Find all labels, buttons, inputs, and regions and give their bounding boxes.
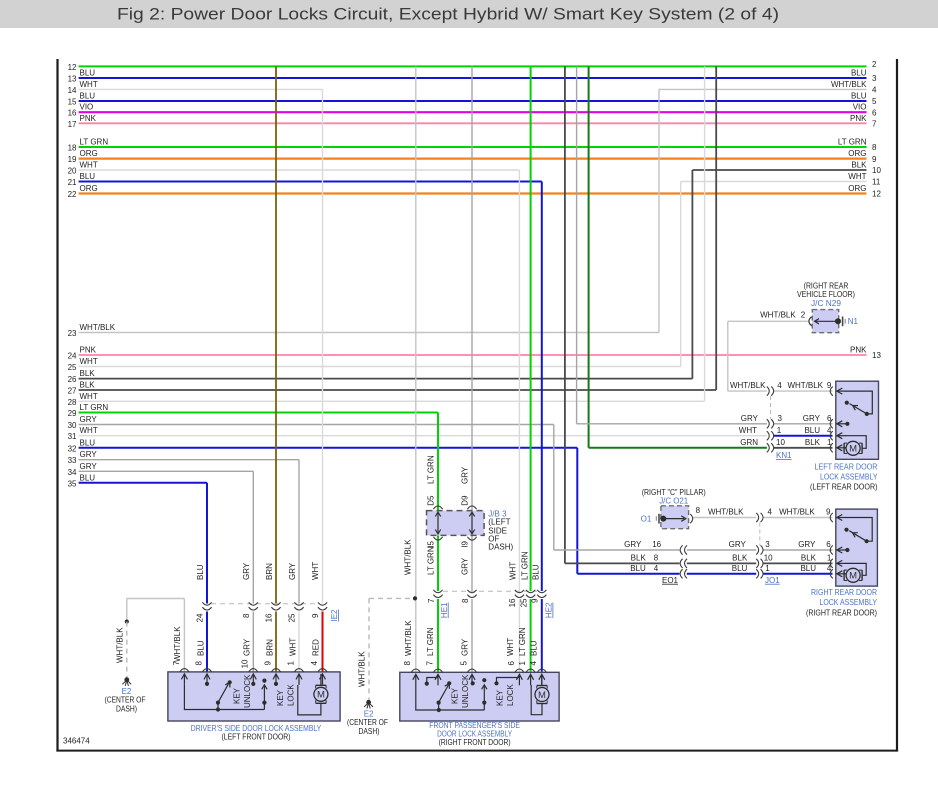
passenger pin arc x=541.8 <box>537 669 546 672</box>
right rear switch blade <box>849 531 866 542</box>
connector dashed link <box>770 396 772 419</box>
wire WHT/BLK E2 drop solid <box>126 599 128 622</box>
svg-text:LOCK: LOCK <box>506 684 515 706</box>
svg-text:18: 18 <box>68 144 77 153</box>
wire BLU 4 row <box>577 573 679 575</box>
passenger pin arrow x=541.8 <box>541 675 543 685</box>
svg-text:WHT/BLK: WHT/BLK <box>115 627 124 663</box>
svg-text:5: 5 <box>872 97 877 106</box>
driver pin arc x=184.4 <box>180 669 189 672</box>
driver ground bus from pin 7 <box>184 685 264 710</box>
wire WHT vertical from row 20 to passenger connector 16 <box>518 170 520 591</box>
wire WHT/BLK from J/C N29 horizontal <box>728 320 808 322</box>
svg-text:WHT: WHT <box>508 562 517 580</box>
svg-text:26: 26 <box>68 375 77 384</box>
wire GRY vertical from row 30 to right rear GRY 16 row <box>553 425 555 551</box>
J/C O21 exit arc <box>690 514 693 523</box>
svg-text:E2: E2 <box>364 709 374 718</box>
passenger connector break x=472 <box>467 590 476 593</box>
wire GRY 3 row to connector <box>577 423 767 425</box>
svg-text:WHT/BLK: WHT/BLK <box>404 620 413 656</box>
wire BLU 4 segment <box>763 573 832 575</box>
svg-text:11: 11 <box>872 178 881 187</box>
left rear door pin 1 arrow <box>838 447 846 449</box>
passenger motor wire to pin 4 <box>541 674 543 685</box>
svg-text:WHT/BLK: WHT/BLK <box>403 539 412 575</box>
wire GRY 6 segment <box>763 549 832 551</box>
svg-text:WHT/BLK: WHT/BLK <box>173 626 182 662</box>
svg-text:BLU: BLU <box>529 640 538 656</box>
wire WHT/BLK E2 branch horizontal <box>127 598 185 600</box>
svg-text:BLU: BLU <box>732 564 748 573</box>
connector arcs <box>767 419 769 428</box>
svg-text:(LEFT FRONT DOOR): (LEFT FRONT DOOR) <box>222 733 291 742</box>
driver pin arrow x=253.3 <box>252 675 254 685</box>
svg-text:28: 28 <box>68 398 77 407</box>
svg-text:9: 9 <box>263 660 272 665</box>
passenger pin arrow x=519.4 <box>518 675 520 685</box>
svg-text:LT GRN: LT GRN <box>426 546 435 575</box>
svg-text:BLU: BLU <box>80 438 96 447</box>
svg-text:10: 10 <box>872 166 881 175</box>
wire row 25 WHT <box>79 366 681 368</box>
svg-text:GRN: GRN <box>740 438 758 447</box>
junction connector J/C N29 box <box>812 310 838 333</box>
svg-text:JO1: JO1 <box>765 576 780 585</box>
driver pin arrow x=299 <box>298 675 300 685</box>
svg-text:ORG: ORG <box>80 184 98 193</box>
svg-text:23: 23 <box>68 329 77 338</box>
svg-text:RIGHT REAR DOOR: RIGHT REAR DOOR <box>811 588 877 597</box>
svg-text:HE2: HE2 <box>545 602 554 618</box>
svg-text:346474: 346474 <box>63 737 90 746</box>
wire WHT/BLK vertical from junction dot down to passenger box <box>415 598 417 671</box>
svg-text:WHT: WHT <box>80 80 98 89</box>
svg-text:LEFT REAR DOOR: LEFT REAR DOOR <box>815 462 878 471</box>
svg-text:30: 30 <box>68 421 77 430</box>
wire WHT/BLK E2 drop dashed <box>126 622 128 678</box>
passenger connector break x=438 <box>433 590 442 593</box>
svg-text:LT GRN: LT GRN <box>521 551 530 580</box>
svg-text:KN1: KN1 <box>776 451 792 460</box>
wire BRN vertical below connector <box>275 612 277 672</box>
svg-text:VEHICLE FLOOR): VEHICLE FLOOR) <box>797 290 855 299</box>
svg-text:GRY: GRY <box>803 414 821 423</box>
svg-text:LT GRN: LT GRN <box>80 403 109 412</box>
svg-text:WHT/BLK: WHT/BLK <box>708 508 744 517</box>
driver key unlock pivot <box>217 703 219 710</box>
wire row 30 GRY <box>79 424 554 426</box>
wire WHT/BLK E2 drop dashed <box>368 598 370 700</box>
wire LT GRN vertical J/B 3 to connector 7 <box>437 535 439 591</box>
svg-text:(CENTER OF: (CENTER OF <box>105 696 146 705</box>
svg-text:31: 31 <box>68 432 77 441</box>
passenger motor M <box>537 685 547 687</box>
svg-text:1: 1 <box>518 660 527 665</box>
left rear door pin 4 arrow <box>838 435 846 437</box>
svg-text:EO1: EO1 <box>662 576 679 585</box>
left rear door pin 6 arc <box>830 419 833 428</box>
connector arcs right half <box>756 545 758 554</box>
svg-text:16: 16 <box>68 109 77 118</box>
J/C N29 exit bar <box>842 317 844 327</box>
svg-text:D9: D9 <box>461 495 470 506</box>
svg-text:24: 24 <box>196 613 205 622</box>
driver motor M <box>316 684 326 686</box>
J/B 3 internal arrow left <box>437 514 439 533</box>
svg-text:(CENTER OF: (CENTER OF <box>347 718 388 727</box>
wire row 26 BLK <box>79 378 693 380</box>
ground E2 (right) <box>366 700 371 705</box>
wire row 33 GRY <box>79 459 299 461</box>
wire row 31 WHT <box>79 435 767 437</box>
svg-text:5: 5 <box>459 660 468 665</box>
ground E2 (left) <box>124 677 129 682</box>
driver pin arc x=322.5 <box>318 669 327 672</box>
svg-text:GRY: GRY <box>624 540 642 549</box>
svg-text:GRY: GRY <box>461 466 470 484</box>
driver key unlock blade <box>218 684 229 703</box>
svg-text:BLU: BLU <box>804 426 820 435</box>
svg-text:14: 14 <box>68 86 77 95</box>
component driver's side door lock assembly box <box>168 672 340 721</box>
driver pin arrow x=276 <box>275 675 277 685</box>
wire GRY 3 segment <box>687 549 756 551</box>
svg-text:PNK: PNK <box>80 346 97 355</box>
svg-text:WHT: WHT <box>80 161 98 170</box>
svg-text:1: 1 <box>286 660 295 665</box>
svg-text:BLU: BLU <box>197 640 206 656</box>
passenger key unlock top contact dot <box>447 681 451 685</box>
driver connector break x=299 <box>294 602 303 605</box>
svg-text:GRY: GRY <box>80 450 98 459</box>
connector arcs <box>767 387 769 396</box>
connector arcs left half <box>680 569 682 578</box>
svg-text:BLK: BLK <box>732 553 748 562</box>
wire BLU 1 segment <box>687 573 756 575</box>
svg-text:8: 8 <box>872 143 877 152</box>
wire LT GRN vertical below connector 7 to passenger pin 7 <box>437 599 439 672</box>
wire BLU vertical below connector 24 to driver pin 8 <box>206 612 208 672</box>
junction dot passenger pin 8 wire <box>413 596 417 600</box>
svg-text:LT GRN: LT GRN <box>838 138 867 147</box>
svg-text:KEY: KEY <box>233 687 242 704</box>
svg-text:DASH): DASH) <box>359 727 380 736</box>
svg-text:O1: O1 <box>641 515 652 524</box>
svg-text:KEY: KEY <box>496 689 505 706</box>
svg-text:WHT/BLK: WHT/BLK <box>358 651 367 687</box>
connector arcs left half <box>680 545 682 554</box>
left rear switch common dot <box>865 412 869 416</box>
wire GRY 16 row <box>554 549 680 551</box>
svg-text:BLU: BLU <box>630 564 646 573</box>
right rear switch contact dot <box>844 528 848 532</box>
J/C N29 internal wire with dot <box>816 320 838 322</box>
svg-text:BLU: BLU <box>80 69 96 78</box>
svg-text:19: 19 <box>68 155 77 164</box>
svg-text:7: 7 <box>172 660 181 665</box>
driver pin 8 contact <box>206 683 208 686</box>
svg-text:DRIVER'S SIDE DOOR LOCK ASSEMB: DRIVER'S SIDE DOOR LOCK ASSEMBLY <box>191 724 322 733</box>
svg-text:LT GRN: LT GRN <box>426 627 435 656</box>
svg-text:WHT: WHT <box>80 357 98 366</box>
passenger pin 7 contact jog <box>427 678 438 683</box>
passenger ground bus from pin 8 <box>416 685 485 710</box>
passenger pin 5 contact <box>471 683 473 686</box>
driver pin arrow x=207 <box>206 675 208 685</box>
passenger pin arc x=519.4 <box>515 669 524 672</box>
svg-text:IE2: IE2 <box>330 609 339 622</box>
svg-text:10: 10 <box>764 553 773 562</box>
svg-text:DASH): DASH) <box>488 543 513 552</box>
wire row 20 WHT left segment <box>79 169 520 171</box>
svg-text:8: 8 <box>242 613 251 618</box>
svg-text:GRY: GRY <box>461 557 470 575</box>
svg-text:BLU: BLU <box>80 172 96 181</box>
svg-text:6: 6 <box>507 660 516 665</box>
svg-text:BLK: BLK <box>631 553 647 562</box>
svg-text:M: M <box>849 444 857 455</box>
svg-text:BLU: BLU <box>800 564 816 573</box>
svg-text:ORG: ORG <box>848 184 866 193</box>
svg-text:6: 6 <box>872 108 877 117</box>
svg-text:RED: RED <box>311 639 320 656</box>
J/C N29 entry arc <box>809 317 812 326</box>
svg-text:I9: I9 <box>461 540 470 547</box>
svg-text:13: 13 <box>872 351 881 360</box>
left rear door pin 9 arc <box>830 387 833 396</box>
connector arcs WHT/BLK <box>756 513 758 522</box>
svg-text:3: 3 <box>778 414 783 423</box>
driver pin 10 contact <box>252 683 254 686</box>
passenger pin arc x=472 <box>467 669 476 672</box>
svg-text:ORG: ORG <box>848 149 866 158</box>
wire BLU 4 segment to left rear door <box>774 435 833 437</box>
driver connector break x=322.5 <box>318 602 327 605</box>
J/C N29 internal arrowhead <box>815 319 820 324</box>
svg-text:M: M <box>849 571 857 582</box>
wire BLK vertical x=564.9 to right rear door row <box>564 66 566 563</box>
wire WHT vertical from row 14 to driver connector 9 <box>322 89 324 603</box>
svg-text:BLU: BLU <box>851 92 867 101</box>
svg-text:3: 3 <box>765 540 770 549</box>
svg-text:8: 8 <box>461 598 470 603</box>
svg-text:9: 9 <box>872 155 877 164</box>
wire WHT vertical below connector 25 to driver pin 1 <box>298 612 300 672</box>
right rear door pin 6 arrow <box>838 549 846 551</box>
left rear BLU wire to motor <box>845 436 866 449</box>
svg-text:27: 27 <box>68 387 77 396</box>
passenger pin arrow x=415.8 <box>415 675 417 685</box>
right rear door pin 1 arc <box>830 559 833 568</box>
wire GRY vertical below connector to passenger pin 5 <box>471 599 473 672</box>
wire RED vertical below connector 9 to driver pin 4 <box>322 612 324 672</box>
right rear door pin 4 arc <box>830 569 833 578</box>
svg-text:7: 7 <box>425 660 434 665</box>
wire WHT/BLK from J/C O21 <box>693 517 756 519</box>
svg-text:GRY: GRY <box>80 462 98 471</box>
wire row 21 BLU left segment <box>79 181 542 183</box>
left rear motor M <box>843 443 845 453</box>
driver pin arrow x=184.4 <box>183 675 185 685</box>
driver connectors dashed link <box>211 603 318 605</box>
svg-text:15: 15 <box>68 98 77 107</box>
wire GRY vertical x=472 top to J/B 3 <box>471 66 473 510</box>
driver key unlock top contact dot <box>228 680 232 684</box>
passenger motor return loop <box>531 685 542 715</box>
connector arcs left half <box>680 559 682 568</box>
passenger key lock blade <box>483 686 485 710</box>
wire GRY vertical J/B 3 to connector <box>471 535 473 591</box>
right rear motor M <box>843 570 845 580</box>
svg-text:LT GRN: LT GRN <box>518 627 527 656</box>
right rear door pin 6 arc <box>830 545 833 554</box>
svg-text:(RIGHT "C" PILLAR): (RIGHT "C" PILLAR) <box>642 488 706 497</box>
wire GRY vertical x=576.6 to left rear GRY 3 row <box>576 66 578 423</box>
svg-text:13: 13 <box>68 75 77 84</box>
svg-text:4: 4 <box>768 508 773 517</box>
svg-text:BRN: BRN <box>265 639 274 656</box>
wire row 4 WHT/BLK right segment <box>659 88 867 90</box>
svg-text:4: 4 <box>777 381 782 390</box>
driver motor wire to pin 4 <box>320 674 322 685</box>
svg-text:17: 17 <box>68 120 77 129</box>
svg-text:BLK: BLK <box>851 161 867 170</box>
svg-text:WHT/BLK: WHT/BLK <box>80 323 116 332</box>
wire WHT/BLK vertical x=415.8 to passenger pin 8 <box>415 66 417 598</box>
svg-text:3: 3 <box>872 74 877 83</box>
svg-text:16: 16 <box>652 540 661 549</box>
svg-text:WHT: WHT <box>80 426 98 435</box>
wire row 22 ORG left-to-right <box>79 192 867 194</box>
left rear door pin 4 arc <box>830 431 833 440</box>
J/B 3 bottom arc I9 <box>467 537 476 540</box>
svg-text:BLK: BLK <box>80 369 96 378</box>
wire BLU vertical from row 32 to right rear BLU 4 row <box>576 448 578 574</box>
left rear switch wire <box>845 391 872 414</box>
svg-text:WHT: WHT <box>506 638 515 656</box>
connector arcs right half <box>756 559 758 568</box>
right rear door pin 1 arrow <box>838 562 846 564</box>
right rear door pin 4 arrow <box>838 573 846 575</box>
svg-text:LOCK: LOCK <box>287 684 296 706</box>
svg-text:GRY: GRY <box>242 638 251 656</box>
wire BLU vertical from row 21 to passenger connector 9 <box>541 182 543 592</box>
wire WHT vertical x=704.6 from top to row 28 <box>704 66 706 401</box>
wire WHT/BLK vertical from J/C N29 down to row <box>727 321 729 391</box>
svg-text:WHT/BLK: WHT/BLK <box>760 311 796 320</box>
svg-text:WHT: WHT <box>739 426 757 435</box>
svg-text:VIO: VIO <box>80 103 94 112</box>
wire WHT/BLK 9 segment to left rear door <box>774 390 833 392</box>
passenger connector break x=519.4 <box>515 590 524 593</box>
svg-text:WHT: WHT <box>848 172 866 181</box>
svg-text:LT GRN: LT GRN <box>426 455 435 484</box>
svg-text:4: 4 <box>654 564 659 573</box>
svg-text:KEY: KEY <box>451 687 460 704</box>
wire row 29 LT GRN <box>79 412 438 414</box>
svg-text:BLK: BLK <box>801 553 817 562</box>
svg-text:BLK: BLK <box>80 381 96 390</box>
wire row 18 LT GRN left-to-right <box>79 146 867 148</box>
svg-text:GRY: GRY <box>798 540 816 549</box>
svg-text:35: 35 <box>68 479 77 488</box>
wire GRN vertical x=588.6 to KN1 row <box>588 66 590 447</box>
wire WHT/BLK to driver pin 7 <box>183 599 185 672</box>
wire WHT/BLK 9 segment <box>763 517 832 519</box>
frame left border <box>56 59 58 752</box>
svg-text:20: 20 <box>68 167 77 176</box>
wire row 34 GRY <box>79 470 254 472</box>
svg-text:8: 8 <box>403 660 412 665</box>
svg-text:33: 33 <box>68 456 77 465</box>
svg-text:M: M <box>317 690 325 701</box>
svg-text:N1: N1 <box>848 317 859 326</box>
left rear door pin 1 arc <box>830 443 833 452</box>
svg-text:BLU: BLU <box>80 473 96 482</box>
svg-text:ORG: ORG <box>80 149 98 158</box>
svg-text:8: 8 <box>194 660 203 665</box>
svg-text:8: 8 <box>654 553 659 562</box>
passenger key unlock pivot <box>438 703 440 710</box>
svg-text:Fig 2: Power Door Locks Circui: Fig 2: Power Door Locks Circuit, Except … <box>117 5 779 24</box>
passenger connector break x=530.6 <box>526 590 535 593</box>
wire LT GRN vertical x=530.6 top to connector 25 <box>530 66 532 591</box>
svg-text:2: 2 <box>801 311 806 320</box>
svg-text:BLU: BLU <box>851 69 867 78</box>
wire WHT/BLK vertical x=659 joining row 4 and row 23 <box>658 89 660 332</box>
svg-text:WHT/BLK: WHT/BLK <box>831 80 867 89</box>
svg-text:9: 9 <box>311 613 320 618</box>
wire GRN 10 row to connector <box>589 447 767 449</box>
svg-text:GRY: GRY <box>242 562 251 580</box>
svg-text:WHT/BLK: WHT/BLK <box>730 381 766 390</box>
wire row 13 BLU left-to-right <box>79 77 867 79</box>
svg-text:21: 21 <box>68 178 77 187</box>
wire row 16 VIO left-to-right <box>79 111 867 113</box>
passenger connector break x=541.8 <box>537 590 546 593</box>
junction block J/B 3 box <box>427 511 485 536</box>
svg-text:7: 7 <box>872 120 877 129</box>
J/B 3 top arc D9 <box>467 506 476 509</box>
svg-text:GRY: GRY <box>80 415 98 424</box>
driver connector break x=276 <box>271 602 280 605</box>
right rear door pin 9 arrow <box>838 517 846 519</box>
title bar <box>0 0 938 28</box>
passenger pin arc x=415.8 <box>411 669 420 672</box>
svg-text:HE1: HE1 <box>440 602 449 618</box>
svg-text:UNLOCK: UNLOCK <box>461 674 470 708</box>
wire BLK vertical x=692.4 joining row 10 and row 26 <box>691 170 693 379</box>
driver pin arc x=276 <box>271 669 280 672</box>
driver key lock blade <box>263 686 265 710</box>
component right rear door lock assembly box <box>836 509 878 586</box>
svg-text:25: 25 <box>288 613 297 622</box>
wire BLK 1 segment <box>763 562 832 564</box>
svg-text:BRN: BRN <box>265 563 274 580</box>
svg-text:E2: E2 <box>122 687 132 696</box>
svg-text:16: 16 <box>508 598 517 607</box>
svg-text:LOCK ASSEMBLY: LOCK ASSEMBLY <box>820 473 878 482</box>
left rear switch blade <box>850 404 867 414</box>
svg-text:8: 8 <box>696 506 701 515</box>
left rear door pin 6 arrow <box>838 423 846 425</box>
passenger pin arrow x=438 <box>437 675 439 685</box>
wire row 23 WHT/BLK <box>79 332 659 334</box>
wire BRN vertical from top to driver door <box>275 66 277 603</box>
J/C O21 internal wire with dot <box>663 518 684 520</box>
wire BLK vertical x=716.2 from top to row 27 <box>715 66 717 390</box>
